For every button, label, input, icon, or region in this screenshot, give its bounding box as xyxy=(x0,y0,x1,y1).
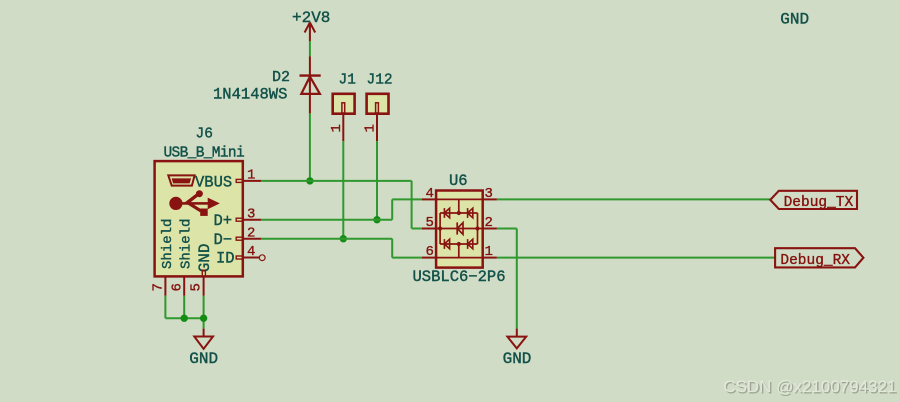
svg-text:Shield: Shield xyxy=(160,219,176,269)
wire D- net to U6 pin6 xyxy=(261,239,422,258)
junction on D- net xyxy=(340,235,347,242)
junction shield bus 2 xyxy=(200,315,207,322)
J6 pin 7 (Shield) xyxy=(164,276,166,295)
connector J1 xyxy=(333,94,355,141)
svg-text:1: 1 xyxy=(363,124,379,132)
svg-text:CSDN @x2100794321: CSDN @x2100794321 xyxy=(723,377,896,396)
junction on D+ net xyxy=(373,216,380,223)
svg-text:U6: U6 xyxy=(449,172,468,190)
wire D2 to VBUS net xyxy=(309,113,311,180)
connector J6 body xyxy=(155,161,243,276)
svg-text:2: 2 xyxy=(247,225,255,241)
svg-text:J12: J12 xyxy=(367,73,393,89)
J6 pin 6 (Shield) xyxy=(183,276,185,295)
U6 pin 2 xyxy=(483,228,497,230)
wire VBUS net to U6 pin5 xyxy=(261,181,422,229)
U6 pin 5 xyxy=(422,228,436,230)
svg-text:6: 6 xyxy=(426,244,434,260)
junction on VBUS net xyxy=(306,177,313,184)
svg-text:7: 7 xyxy=(151,283,167,291)
wire shield pins to gnd xyxy=(165,296,203,329)
svg-text:VBUS: VBUS xyxy=(195,173,232,191)
diode D2 xyxy=(300,56,321,113)
svg-text:GND: GND xyxy=(503,350,532,368)
svg-text:J1: J1 xyxy=(339,73,356,89)
svg-text:Debug_RX: Debug_RX xyxy=(780,253,850,269)
svg-text:D−: D− xyxy=(214,231,233,249)
U6 internal junction dots xyxy=(457,211,461,215)
ground symbol below J6 xyxy=(194,329,213,349)
svg-text:1: 1 xyxy=(247,168,255,184)
U6 pin 4 xyxy=(422,198,436,200)
power symbol +2V8 xyxy=(305,23,316,42)
J6 pin 5 (GND) xyxy=(202,270,205,296)
USB plug icon xyxy=(168,175,194,185)
svg-text:4: 4 xyxy=(426,186,434,202)
svg-text:6: 6 xyxy=(169,283,185,291)
wire U6 pin1 to Debug_RX xyxy=(497,257,775,259)
svg-text:1: 1 xyxy=(329,124,345,132)
U6 internal diode bottom-left xyxy=(444,239,449,249)
svg-text:Shield: Shield xyxy=(179,219,195,269)
IC U6 body xyxy=(436,191,483,268)
hierarchical label Debug_TX xyxy=(770,191,857,211)
svg-text:1N4148WS: 1N4148WS xyxy=(213,86,287,104)
connector J12 xyxy=(367,94,389,141)
svg-text:D2: D2 xyxy=(272,69,290,86)
svg-text:5: 5 xyxy=(426,215,434,231)
svg-text:3: 3 xyxy=(485,186,493,202)
svg-text:4: 4 xyxy=(247,244,255,260)
svg-text:+2V8: +2V8 xyxy=(292,9,330,27)
svg-text:Debug_TX: Debug_TX xyxy=(784,195,854,211)
U6 internal diode bottom-right xyxy=(468,239,473,249)
wire J12 to D+ net xyxy=(376,141,378,220)
wire U6 pin2 to ground xyxy=(497,229,517,329)
J6 pin 3 (D+) xyxy=(236,218,261,221)
U6 pin 3 xyxy=(483,198,497,200)
svg-text:3: 3 xyxy=(247,206,255,222)
svg-text:USB_B_Mini: USB_B_Mini xyxy=(164,146,245,162)
junction shield bus 1 xyxy=(181,315,188,322)
svg-text:GND: GND xyxy=(196,243,214,272)
wire J1 to D- net xyxy=(342,141,344,239)
J6 pin 4 (ID, unconnected) xyxy=(236,255,265,261)
U6 internal diode top-right xyxy=(468,208,473,218)
svg-text:J6: J6 xyxy=(196,127,213,143)
svg-text:GND: GND xyxy=(780,10,809,28)
J6 pin 1 (VBUS) xyxy=(236,179,261,182)
watermark xyxy=(723,377,898,397)
ground symbol below U6 xyxy=(507,329,526,349)
U6 internal rails xyxy=(436,199,483,257)
U6 internal diode top-left xyxy=(444,208,449,218)
wire +2V8 to D2 xyxy=(309,41,311,56)
svg-text:ID: ID xyxy=(216,250,235,268)
wire D+ net to U6 pin4 xyxy=(261,199,422,219)
J6 pin 2 (D-) xyxy=(236,237,261,240)
hierarchical label Debug_RX xyxy=(775,248,863,269)
U6 internal zener center xyxy=(457,222,463,234)
svg-text:5: 5 xyxy=(189,283,205,291)
svg-text:D+: D+ xyxy=(214,212,233,230)
svg-text:2: 2 xyxy=(485,215,493,231)
wire U6 pin3 to Debug_TX xyxy=(497,198,770,200)
U6 pin 1 xyxy=(483,257,497,259)
USB trident icon xyxy=(169,190,220,216)
svg-text:GND: GND xyxy=(189,350,218,368)
svg-text:1: 1 xyxy=(485,244,493,260)
svg-text:USBLC6−2P6: USBLC6−2P6 xyxy=(413,268,506,286)
U6 pin 6 xyxy=(422,257,436,259)
